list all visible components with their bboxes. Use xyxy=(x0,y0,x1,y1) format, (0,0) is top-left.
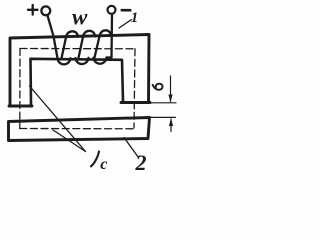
winding turn 3 cross stroke xyxy=(95,36,100,57)
winding w : lead-in wire from + terminal xyxy=(48,16,58,59)
leader line lc to core left leg xyxy=(30,86,86,152)
dashed mean magnetic path (right, through gap) xyxy=(134,49,135,128)
winding turn 2 cross stroke xyxy=(79,37,84,58)
core U-shape outer outline (item 1) xyxy=(10,35,149,107)
winding turn 3 bottom arc xyxy=(94,58,107,64)
core right leg bottom edge xyxy=(121,101,150,104)
svg-text:w: w xyxy=(72,5,88,30)
svg-text:2: 2 xyxy=(135,150,147,174)
air gap dimension upper arrow line xyxy=(170,76,172,102)
winding lead-out wire to - terminal xyxy=(110,15,113,58)
leader line lc to armature path xyxy=(53,130,86,152)
background paper xyxy=(0,0,183,174)
armature bar (item 2) xyxy=(9,118,150,141)
terminal circle left (+) xyxy=(41,6,50,15)
winding turn 1 bottom arc xyxy=(58,58,71,64)
core inner window outline xyxy=(31,59,124,105)
winding turn 3 top arc xyxy=(100,30,112,36)
core left leg bottom edge xyxy=(9,105,32,108)
dashed mean magnetic path (armature) xyxy=(20,128,134,130)
label delta (rotated, drawn) xyxy=(153,84,163,90)
terminal circle right (-) xyxy=(108,6,116,14)
winding turn 1 cross stroke xyxy=(62,37,67,58)
svg-text:1: 1 xyxy=(131,10,139,26)
air gap dimension extension line (armature top) xyxy=(150,116,176,118)
plus sign xyxy=(28,5,38,15)
minus sign xyxy=(122,9,131,12)
svg-text:c: c xyxy=(100,156,107,173)
winding turn 1 top arc xyxy=(66,31,78,37)
air gap dimension extension line (leg bottom) xyxy=(150,102,176,104)
arrowhead up (lower dim) xyxy=(169,118,173,126)
dashed mean magnetic path (top bar) xyxy=(20,48,135,50)
air gap dimension lower arrow line xyxy=(170,119,172,132)
leader line to label 2 xyxy=(124,138,139,158)
dashed mean magnetic path (left, through gap) xyxy=(19,49,21,129)
label lc : l (drawn) xyxy=(91,151,99,166)
winding turn 2 top arc xyxy=(83,31,95,37)
leader line to label 1 xyxy=(119,20,132,29)
winding turn 2 bottom arc xyxy=(76,58,89,64)
arrowhead down (upper dim) xyxy=(168,95,172,103)
